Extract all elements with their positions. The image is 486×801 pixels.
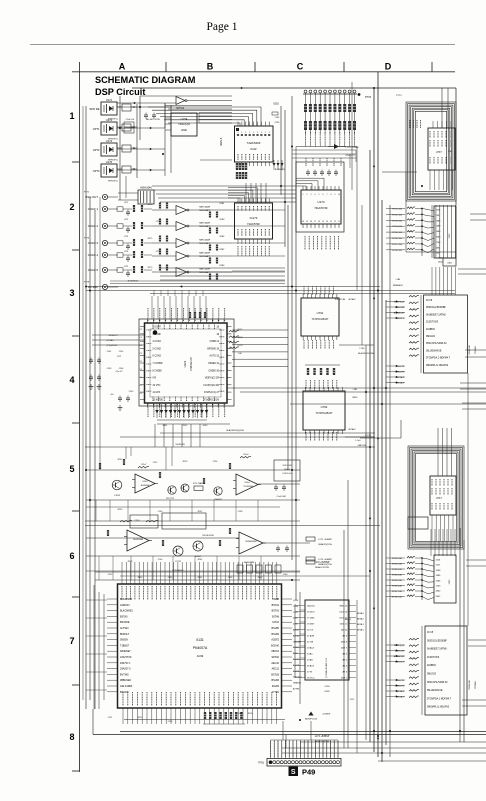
svg-text:RTS5 10K: RTS5 10K [392, 580, 403, 582]
svg-text:0ac.Tri: 0ac.Tri [397, 365, 404, 368]
svg-text:CS8412-CP: CS8412-CP [189, 357, 193, 371]
svg-text:18: 18 [310, 221, 312, 223]
module1 left vertical wire down [405, 172, 407, 252]
svg-text:S: S [291, 769, 296, 776]
shield box module top (DIR) [406, 102, 456, 201]
svg-text:P7TV: P7TV [396, 95, 402, 97]
svg-text:A6542: A6542 [293, 634, 300, 637]
svg-text:K8.U8.452M: K8.U8.452M [202, 535, 213, 537]
wire mesh C2 corners [292, 149, 356, 151]
decoupling parts near U176 [122, 166, 131, 173]
wire into module2 y438 [360, 437, 401, 439]
svg-text:U164: U164 [245, 482, 251, 484]
svg-text:RTS1 100: RTS1 100 [392, 209, 403, 211]
inner IC of top module [428, 128, 455, 170]
svg-text:BN0OLT: BN0OLT [120, 633, 130, 636]
row tick 3 [72, 335, 80, 337]
svg-text:1A DD4: 1A DD4 [307, 605, 315, 608]
svg-text:L175: L175 [124, 266, 128, 268]
svg-text:U174: U174 [317, 200, 325, 204]
resistor column D3 [409, 295, 419, 297]
svg-text:05SD1GL/5DD0BF: 05SD1GL/5DD0BF [427, 640, 447, 642]
verticals below module1 to D3 [431, 205, 433, 258]
svg-text:C155: C155 [324, 686, 330, 688]
svg-text:BUAD.PV/17A: BUAD.PV/17A [315, 566, 329, 569]
svg-text:BETA.0: BETA.0 [357, 612, 365, 615]
nested corner wires above IC22 [168, 123, 240, 126]
svg-text:C1: C1 [140, 337, 142, 339]
svg-text:1: 1 [257, 132, 258, 134]
svg-text:X3L 3Z-3N: X3L 3Z-3N [335, 299, 346, 301]
inductor L171 [194, 486, 203, 491]
svg-text:31TA2: 31TA2 [272, 621, 280, 624]
svg-text:BMMHEI02: BMMHEI02 [393, 285, 403, 287]
svg-text:22 GE: 22 GE [307, 642, 314, 644]
svg-text:14: 14 [326, 221, 328, 223]
top wires into U161 [151, 296, 153, 319]
svg-text:D163: D163 [203, 425, 208, 427]
svg-text:R154: R154 [248, 713, 253, 715]
svg-text:0S4B: 0S4B [273, 598, 279, 601]
svg-text:A/S43: A/S43 [293, 629, 300, 632]
svg-text:BETA.5: BETA.5 [357, 629, 365, 632]
D7 block with signal rows [425, 626, 467, 715]
svg-text:F1V/PUCH 2N: F1V/PUCH 2N [204, 399, 219, 401]
feedback resistor R171 [240, 456, 251, 458]
top bus corner right [455, 88, 457, 205]
svg-text:20: 20 [302, 221, 304, 223]
svg-text:AEC11: AEC11 [272, 668, 280, 671]
svg-text:8: 8 [331, 194, 332, 196]
module1 verticals crossing shield top [441, 88, 443, 128]
svg-text:BPS/NE 33: BPS/NE 33 [207, 348, 219, 350]
svg-text:0AUB0D57 2ATM0: 0AUB0D57 2ATM0 [426, 313, 446, 316]
caps under left cluster [118, 397, 122, 399]
vertical interconnects A1 [198, 113, 200, 124]
inverter gate U15x-2 [176, 239, 187, 248]
svg-text:SDTAK2: SDTAK2 [348, 298, 355, 301]
svg-text:R1C2: R1C2 [238, 337, 243, 339]
svg-text:3: 3 [69, 288, 74, 298]
wires y433 437 with labels [160, 432, 375, 434]
resistor stack above U161 [189, 312, 191, 318]
svg-text:4 CON1: 4 CON1 [153, 341, 162, 343]
right edge vertical x468 [467, 373, 469, 626]
svg-text:BUADP(V)17A: BUADP(V)17A [318, 543, 332, 546]
svg-text:F1VPU(C1) 27: F1VPU(C1) 27 [204, 392, 220, 394]
svg-text:C163: C163 [107, 368, 112, 370]
memory IC U182 [305, 600, 349, 680]
svg-text:RTS6 10K: RTS6 10K [392, 575, 403, 577]
svg-text:2: 2 [69, 202, 74, 212]
svg-text:CSTDLN: CSTDLN [475, 680, 477, 689]
svg-text:74HC(U)4: 74HC(U)4 [178, 122, 190, 126]
svg-text:SD1A.1: SD1A.1 [396, 382, 404, 385]
main DSP IC 0131 PN8007A outline [118, 584, 282, 708]
vertical bus x378 [377, 72, 379, 757]
decoupling parts near U171 [122, 104, 131, 111]
svg-text:05SD1GL/5DD0BF: 05SD1GL/5DD0BF [426, 307, 446, 309]
svg-text:1: 1 [269, 132, 270, 134]
svg-text:AUBAC2B: AUBAC2B [394, 655, 405, 658]
svg-text:R141: R141 [198, 559, 203, 561]
DSP left loop wires [98, 592, 100, 709]
svg-text:AC-3RF: AC-3RF [88, 285, 98, 289]
svg-text:R179: R179 [148, 267, 153, 269]
IC22 pin number row bottom [237, 154, 239, 160]
wire optical bus vertical [136, 104, 138, 178]
svg-text:C1x4 0.01: C1x4 0.01 [126, 119, 135, 121]
svg-text:BSC-OUT: BSC-OUT [85, 195, 98, 199]
svg-text:SP/F RE: SP/F RE [89, 107, 99, 111]
svg-text:9: 9 [335, 194, 336, 196]
svg-text:SDSP(C)2: SDSP(C)2 [394, 645, 405, 647]
svg-text:13: 13 [330, 221, 332, 223]
svg-text:A2DFZ: A2DFZ [271, 639, 279, 642]
svg-text:C158: C158 [238, 713, 243, 715]
junction box U302 [443, 258, 456, 266]
svg-text:RTS8 10K: RTS8 10K [392, 586, 403, 588]
svg-text:BLKCMNE1: BLKCMNE1 [120, 610, 134, 613]
RTS set1 connector box [434, 206, 456, 258]
row5 resistors [99, 463, 101, 469]
svg-text:C134: C134 [213, 461, 218, 463]
svg-text:8: 8 [69, 732, 74, 742]
module2 verticals down to RTS set2 [430, 529, 432, 556]
long horizontal y160 [200, 159, 232, 161]
wire mesh under coax rows [110, 280, 285, 282]
svg-text:GND: GND [181, 128, 187, 132]
svg-text:Q CONN./KGEFF-10.L: Q CONN./KGEFF-10.L [326, 657, 328, 678]
svg-text:C161: C161 [107, 351, 112, 353]
column tick B-C [254, 62, 256, 72]
wires above DSP crossing [95, 571, 300, 573]
svg-text:3 CONF: 3 CONF [153, 334, 162, 336]
row tick 5 [72, 510, 80, 512]
svg-text:1: 1 [303, 194, 304, 196]
svg-text:A7TH1: A7TH1 [272, 691, 280, 694]
shield box module 2 [408, 446, 464, 549]
svg-text:1663: 1663 [436, 237, 442, 239]
connector P781 outline [267, 759, 341, 767]
svg-text:29A0S7.0: 29A0S7.0 [120, 668, 131, 671]
resistor array row1 [304, 104, 307, 112]
svg-text:12: 12 [334, 221, 336, 223]
svg-text:23 A1Z: 23 A1Z [307, 647, 315, 650]
extra wire stubs row2 gates to bus [232, 209, 285, 211]
svg-text:1861: 1861 [436, 247, 442, 249]
svg-text:A2DFZN: A2DFZN [120, 604, 130, 607]
svg-text:BC30MC(S): BC30MC(S) [275, 169, 286, 171]
svg-text:L7x0: L7x0 [356, 440, 362, 442]
svg-text:ALTS04: ALTS04 [120, 627, 129, 630]
svg-text:17: 17 [314, 221, 316, 223]
svg-text:X3L3Z-3N: X3L3Z-3N [175, 444, 185, 446]
optical module U171 [101, 102, 117, 115]
header rule [30, 44, 455, 46]
svg-text:U791: U791 [317, 311, 324, 315]
wire from bus to connector [285, 735, 287, 749]
svg-text:1485: 1485 [436, 575, 442, 577]
bottom bus y748 [282, 747, 486, 749]
svg-text:NJM4560M: NJM4560M [246, 541, 257, 543]
row5 right caps [274, 486, 278, 488]
module2 corner sub-box [408, 517, 428, 529]
resistor array row2 [304, 121, 307, 130]
svg-text:1: 1 [241, 132, 242, 134]
svg-text:1206: 1206 [436, 570, 442, 572]
svg-text:L174 +5VBSP: L174 +5VBSP [315, 736, 330, 738]
svg-text:4: 4 [315, 194, 316, 196]
svg-text:BLACKFVD(F)15B: BLACKFVD(F)15B [226, 429, 244, 432]
svg-text:05S0.KHL/SD30.K2: 05S0.KHL/SD30.K2 [427, 682, 448, 684]
svg-text:1: 1 [245, 132, 246, 134]
svg-text:C1x4 6.3M: C1x4 6.3M [276, 496, 286, 498]
right edge vertical x464 [463, 540, 465, 742]
svg-text:C164: C164 [119, 368, 124, 370]
svg-text:SCHEMATIC DIAGRAM: SCHEMATIC DIAGRAM [95, 75, 196, 85]
svg-text:C148: C148 [283, 574, 288, 576]
svg-text:R152: R152 [138, 717, 143, 719]
svg-text:R131: R131 [118, 459, 123, 461]
row tick 2 [72, 249, 80, 251]
svg-text:U176: U176 [106, 160, 113, 164]
svg-text:BCKA0: BCKA0 [271, 644, 280, 647]
svg-text:16 DD5: 16 DD5 [307, 612, 315, 614]
svg-text:7AHC04AF: 7AHC04AF [199, 222, 211, 225]
pullup resistor pairs near gates [209, 212, 211, 218]
transformer T171 HSM-2046 [138, 190, 154, 204]
transistor Q173 [214, 487, 222, 495]
svg-text:OPT1: OPT1 [93, 127, 100, 131]
svg-text:BVT.MS: BVT.MS [120, 673, 129, 676]
svg-text:L172 +5VMSP: L172 +5VMSP [315, 562, 330, 564]
resistors right of U161 [229, 330, 239, 332]
vertical bus x370 [369, 150, 371, 742]
svg-text:C142 0.01u: C142 0.01u [282, 473, 292, 475]
svg-text:DSP Circuit: DSP Circuit [95, 87, 145, 97]
svg-text:47u 3.3: 47u 3.3 [116, 371, 124, 373]
svg-text:AC99: AC99 [197, 654, 204, 658]
opamp U162 [135, 474, 155, 493]
svg-text:74HC04AFT: 74HC04AFT [199, 225, 211, 228]
svg-text:TC74HC125AFT: TC74HC125AFT [311, 318, 329, 321]
svg-text:C1: C1 [140, 353, 142, 355]
module1 inner IC top verticals [432, 121, 434, 128]
svg-text:BETA.2: BETA.2 [357, 618, 365, 621]
row6 bottom trim parts [237, 565, 243, 573]
IC22 pin1 square [236, 128, 239, 131]
bottom line y761 right [378, 760, 486, 762]
svg-text:HAVE.5: HAVE.5 [220, 137, 223, 146]
left column vertical pair [82, 106, 84, 700]
svg-text:3M1G03: 3M1G03 [426, 336, 436, 338]
RTS1 junction vertical [421, 209, 423, 257]
svg-text:A7TH1: A7TH1 [293, 688, 300, 691]
svg-text:0BCK2: 0BCK2 [271, 650, 279, 653]
svg-text:COAX.1: COAX.1 [88, 207, 99, 211]
svg-text:21MB03: 21MB03 [427, 665, 436, 667]
svg-text:1396: 1396 [436, 220, 442, 222]
svg-text:0MDC: 0MDC [352, 397, 358, 399]
svg-text:C246: C246 [293, 606, 299, 608]
svg-text:L174: L174 [124, 251, 128, 253]
vertical collectors x165 x171 [164, 103, 166, 176]
IC173 pin number row top [237, 206, 239, 211]
page link S P49 [289, 767, 299, 777]
svg-text:21SDT.NK3: 21SDT.NK3 [427, 657, 440, 659]
svg-text:P173: P173 [84, 238, 90, 240]
row tick 6 [72, 596, 80, 598]
svg-text:R1C3: R1C3 [238, 345, 243, 347]
diode D179 [334, 144, 339, 149]
D3 block left connector verticals [420, 295, 422, 373]
U791 TC74HC125AFT [301, 298, 339, 336]
svg-text:74HC04AFT: 74HC04AFT [199, 271, 211, 274]
svg-text:COAX.5: COAX.5 [88, 268, 99, 272]
svg-text:L172 +5VADP: L172 +5VADP [318, 538, 332, 541]
transistor Q172b [181, 484, 189, 492]
svg-text:C1: C1 [140, 393, 142, 395]
svg-text:1357: 1357 [436, 215, 442, 217]
svg-text:26 A13: 26 A13 [307, 665, 315, 668]
svg-text:RTS8 100: RTS8 100 [392, 250, 403, 252]
svg-text:0131: 0131 [196, 638, 204, 642]
memory IC left bus [294, 604, 296, 678]
svg-text:OPT3: OPT3 [93, 169, 100, 173]
svg-text:1: 1 [249, 132, 250, 134]
svg-text:BSTA0: BSTA0 [120, 615, 128, 618]
svg-text:(TX)SP0L1: (TX)SP0L1 [107, 345, 119, 347]
svg-text:D161: D161 [163, 425, 168, 427]
opamp U167 [239, 532, 263, 554]
svg-text:05SDGLM: 05SDGLM [469, 680, 471, 690]
svg-text:B: B [207, 62, 214, 72]
decoupling parts near U173 [122, 145, 131, 152]
wire optical outputs to right [117, 106, 172, 108]
top right corner wires [378, 71, 456, 73]
svg-text:C1: C1 [140, 345, 142, 347]
svg-text:VE(PU)C2 2R: VE(PU)C2 2R [205, 378, 220, 380]
svg-text:P770: P770 [365, 95, 372, 99]
svg-text:R147: R147 [258, 577, 263, 579]
svg-text:BSTLB: BSTLB [271, 673, 279, 676]
IC U161 CS8412 main decoder [145, 323, 228, 403]
vertical bus x292 [291, 96, 293, 560]
svg-text:BSTA2: BSTA2 [272, 604, 280, 607]
transistor Q175 [173, 546, 183, 556]
horizontal bus y286 [86, 286, 380, 288]
IC22 74HC540F [235, 126, 274, 162]
svg-text:CN0E0 30: CN0E0 30 [208, 370, 219, 372]
svg-text:15: 15 [322, 221, 324, 223]
diode D7x1 above connector [308, 712, 313, 716]
bus arrows [373, 166, 375, 168]
optical module U172 [101, 122, 117, 135]
optical output arrows [150, 127, 152, 129]
svg-text:C1: C1 [140, 361, 142, 363]
row6 right caps [276, 547, 280, 549]
svg-text:U171: U171 [106, 98, 113, 102]
feedback resistor R167 [138, 466, 149, 468]
bottom bus y731 [120, 731, 486, 733]
svg-text:74HC04AFT: 74HC04AFT [199, 209, 211, 212]
svg-text:13 KAT0E: 13 KAT0E [153, 398, 164, 401]
svg-text:R133: R133 [183, 461, 188, 463]
capacitor cluster above U174 [306, 171, 310, 173]
U161 top vertical wires tall [153, 290, 155, 296]
module1 interior texture [409, 120, 411, 128]
left vertical bus x90 [89, 197, 91, 700]
U174 74HC574F [301, 190, 341, 224]
U161 bottom verticals to analog bus [154, 424, 156, 447]
svg-text:OPT2: OPT2 [93, 148, 100, 152]
svg-text:1489: 1489 [436, 226, 442, 228]
svg-text:A4 6: A4 6 [343, 653, 348, 656]
svg-text:5: 5 [69, 464, 74, 474]
inverter U155 [176, 97, 185, 105]
svg-text:P5K: P5K [448, 151, 453, 153]
svg-text:74HC04AFT: 74HC04AFT [199, 242, 211, 245]
svg-text:R1B7: R1B7 [220, 249, 225, 251]
wire A1 junctions [139, 96, 141, 140]
svg-text:P171: P171 [84, 192, 90, 194]
svg-text:5TCMPDA.1 MDFM4.T: 5TCMPDA.1 MDFM4.T [426, 357, 451, 360]
column tick A-B [165, 62, 167, 72]
svg-text:25 A8: 25 A8 [307, 659, 313, 662]
bottom bus y742 [300, 741, 486, 743]
svg-text:A1Z 8: A1Z 8 [341, 641, 348, 644]
svg-text:74HC574F: 74HC574F [247, 222, 260, 226]
inverter gate U15x-1 [176, 222, 187, 231]
svg-text:U182: U182 [324, 691, 330, 693]
svg-text:1584: 1584 [436, 231, 442, 233]
junction dot [358, 93, 361, 96]
svg-text:BLKA0SSZ: BLKA0SSZ [120, 598, 133, 601]
svg-text:2SA1162: 2SA1162 [214, 498, 222, 501]
svg-text:1584: 1584 [436, 580, 442, 582]
svg-text:BETA.3: BETA.3 [357, 623, 365, 626]
svg-text:U792: U792 [321, 405, 328, 409]
svg-text:U173: U173 [106, 139, 113, 143]
row5-6 boundary boxes [130, 515, 158, 528]
svg-text:A1162: A1162 [195, 555, 202, 558]
capacitor C152 [152, 114, 156, 116]
connector pad row P770 [303, 93, 357, 95]
bottom small parts row [204, 712, 206, 719]
svg-text:20 CS: 20 CS [307, 630, 314, 632]
svg-text:C146: C146 [228, 577, 233, 579]
svg-text:GND 14: GND 14 [339, 606, 348, 608]
module1 inner IC bottom verticals [429, 170, 431, 190]
svg-text:RTS2 10K: RTS2 10K [392, 564, 403, 566]
corner wire x93 [92, 709, 94, 735]
svg-text:GMB202: GMB202 [293, 683, 302, 685]
svg-text:A0 10: A0 10 [341, 629, 347, 632]
connector P781 pin1 dot [269, 761, 272, 764]
svg-text:05S0.KHL/SD30.K2: 05S0.KHL/SD30.K2 [426, 343, 447, 345]
optical module U176 [101, 164, 117, 177]
svg-text:0ac.Tri: 0ac.Tri [397, 679, 404, 682]
resistor network blocks below IC22 [236, 163, 238, 170]
svg-text:SP0U1/C: SP0U1/C [108, 335, 118, 337]
svg-text:C142: C142 [108, 574, 113, 576]
svg-text:A14 1: A14 1 [341, 677, 347, 680]
svg-text:7 CON5D: 7 CON5D [153, 363, 163, 365]
ferrite bead symbols [306, 537, 315, 541]
subcircuit box around U174 [296, 162, 344, 232]
svg-text:RTS3 10K: RTS3 10K [392, 569, 403, 571]
